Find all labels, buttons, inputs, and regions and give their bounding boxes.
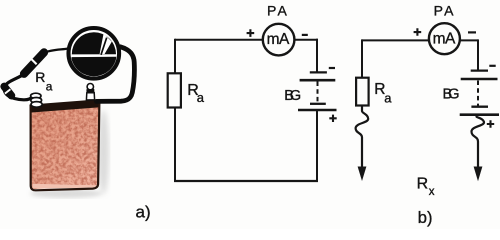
svg-text:mA: mA (267, 31, 290, 48)
svg-text:PA: PA (434, 2, 456, 18)
svg-text:a: a (46, 79, 53, 93)
wire right vertical lower (316, 111, 318, 181)
battery BG: cell1 short plate (471, 69, 488, 71)
cell2 short plate (310, 103, 326, 105)
plus left of meter (247, 29, 255, 37)
coil terminal on battery (31, 93, 43, 107)
wire left vertical (361, 39, 363, 77)
svg-text:R: R (35, 69, 45, 85)
arrowhead right (474, 167, 483, 182)
milliammeter PA circle (263, 24, 295, 56)
battery shadow right (98, 110, 109, 194)
svg-text:a): a) (136, 202, 151, 221)
meter face dome (72, 32, 116, 54)
cell1 long plate (300, 79, 336, 82)
plug B sleeve (4, 87, 11, 96)
svg-text:mA: mA (433, 30, 456, 47)
plug B white band (5, 89, 10, 93)
resistor Ra (168, 73, 181, 107)
battery bottom pale strip (33, 184, 97, 189)
svg-text:BG: BG (284, 88, 301, 104)
wire right vertical (477, 39, 479, 69)
battery body (30, 106, 100, 189)
battery minus (329, 67, 335, 69)
svg-text:R: R (417, 176, 429, 193)
terminal black band (86, 89, 94, 93)
cell1 long plate (461, 78, 498, 81)
milliammeter PA circle (429, 23, 460, 54)
meter lower black blob (72, 57, 117, 78)
battery plus (329, 115, 336, 122)
svg-text:a: a (197, 90, 205, 105)
plug A white band (31, 58, 37, 64)
svg-text:BG: BG (443, 86, 460, 102)
squiggle lead right (472, 116, 484, 168)
plus left of meter (414, 28, 422, 36)
wire top left segment (362, 39, 429, 41)
wire top right segment (294, 39, 318, 41)
plug A (24, 52, 44, 73)
cell2 long plate (460, 113, 499, 116)
meter lead: right thick wire (97, 47, 135, 102)
squiggle lead left (356, 106, 369, 168)
battery shadow bottom (30, 189, 102, 198)
resistor Ra (356, 78, 369, 106)
battery BG: cell1 short plate (310, 71, 327, 73)
wire top right segment (460, 39, 478, 41)
minus right of meter (302, 34, 308, 36)
meter needle (101, 38, 107, 55)
svg-text:PA: PA (267, 2, 289, 18)
minus right of meter (468, 31, 476, 33)
battery outline (31, 100, 100, 190)
wire right vertical upper (316, 39, 318, 72)
battery minus (489, 65, 495, 67)
cell2 long plate (298, 109, 337, 112)
battery body texture (28, 104, 102, 192)
terminal white body (86, 93, 94, 100)
arrowhead left (358, 167, 367, 182)
battery top band (29, 99, 100, 112)
wire plugA to corner (4, 75, 34, 100)
meter face white wedge (100, 33, 112, 54)
terminal under meter: ball (87, 84, 93, 90)
svg-text:a: a (384, 91, 392, 106)
battery plus (487, 120, 494, 127)
left lead thin wire from meter (45, 49, 68, 53)
wire left vertical (174, 39, 176, 181)
svg-text:x: x (429, 186, 435, 198)
cell2 short plate (471, 106, 488, 108)
wire bottom (174, 180, 318, 182)
dashed link (317, 82, 319, 104)
meter body (69, 28, 120, 79)
wire top left segment (175, 39, 263, 41)
svg-text:b): b) (418, 209, 433, 227)
dashed link (477, 81, 479, 107)
